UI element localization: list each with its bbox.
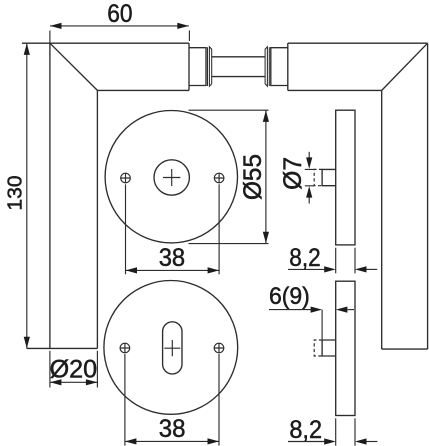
left handle miter joint (50, 43, 98, 90)
dimension 8,2 lower right arrow (366, 441, 377, 443)
dimension 8,2 upper leader (288, 268, 324, 270)
dimension 6(9) leader (269, 309, 311, 311)
dimension 130 bottom arrow (24, 337, 30, 349)
upper side view hub solid (322, 169, 336, 185)
dimension D20 right arrow (86, 379, 98, 385)
right collar ring (265, 47, 267, 86)
dimension 8,2 lower left extension (335, 418, 337, 445)
svg-text:38: 38 (159, 244, 185, 272)
dimension 60 right extension (188, 31, 190, 42)
dimension 38 lower line (125, 440, 219, 442)
dimension 38 upper line (126, 269, 220, 271)
dimension 130 line (26, 43, 28, 348)
right handle grip right edge (427, 43, 429, 349)
dimension 38 lower right arrow (208, 438, 220, 444)
upper rosette right screw (214, 173, 224, 183)
dimension 60 right arrow (177, 23, 189, 29)
dimension D7 bottom arrow (308, 197, 310, 203)
left handle body right edge (188, 43, 190, 90)
right handle body left edge (287, 43, 289, 90)
dimension D7 extension ticks (305, 169, 315, 185)
dimension 38 upper left arrow (126, 267, 138, 273)
dimension 38 upper right arrow (208, 267, 220, 273)
dimension 8,2 upper right arrow (366, 268, 377, 270)
dimension D20 right extension (96, 351, 98, 388)
upper side view rosette profile (336, 110, 355, 245)
left collar ring (209, 47, 211, 86)
upper rosette hub circle (154, 160, 189, 195)
dimension 38 upper right extension (218, 184, 220, 274)
left handle grip left edge (49, 43, 51, 348)
svg-text:Ø55: Ø55 (239, 154, 267, 200)
dimension D7 top arrow (308, 152, 310, 158)
dimension D55 bottom arrow (263, 232, 269, 244)
dimension 6(9) right arrow (348, 309, 354, 311)
lower side view hub dashed (314, 340, 322, 356)
upper side view hub dashed (314, 169, 322, 185)
svg-text:6(9): 6(9) (269, 283, 310, 310)
right neck (271, 48, 288, 86)
upper rosette circle (105, 111, 237, 243)
dimension 6(9) extension (321, 310, 323, 340)
dimension 60 left arrow (50, 23, 62, 29)
dimension D55 bottom extension (189, 243, 269, 245)
svg-text:60: 60 (107, 0, 132, 28)
dimension 8,2 upper right extension (354, 248, 356, 274)
svg-text:130: 130 (5, 175, 27, 210)
dimension 8,2 lower leader (288, 441, 324, 443)
dimension D55 top arrow (263, 110, 269, 122)
dimension 130 top arrow (24, 43, 30, 55)
lower rosette circle (104, 281, 238, 415)
dimension 38 lower right extension (218, 354, 220, 446)
svg-text:Ø20: Ø20 (50, 355, 98, 383)
right collar line (268, 47, 270, 86)
dimension D55 top extension (189, 109, 269, 111)
dimension D20 line (50, 381, 98, 383)
left collar line (207, 47, 209, 86)
left handle grip bottom edge (27, 347, 98, 349)
right handle miter joint (382, 43, 428, 90)
lower rosette right screw (214, 343, 224, 353)
left handle grip right edge (96, 90, 98, 348)
lower rosette keyhole slot (163, 322, 182, 374)
dimension D20 left arrow (50, 379, 62, 385)
dimension 38 upper left extension (125, 184, 127, 274)
dimension 8,2 lower right extension (354, 418, 356, 445)
lower rosette slot cross (164, 340, 180, 356)
lower side view hub solid (322, 340, 336, 356)
upper rosette left screw (121, 173, 131, 183)
right handle grip bottom edge (382, 348, 428, 350)
dimension 60 line (50, 25, 189, 27)
svg-text:8,2: 8,2 (289, 416, 322, 444)
left handle top edge (22, 42, 189, 44)
lower side view rosette profile (336, 281, 355, 415)
dimension D20 left extension (49, 351, 51, 388)
lower rosette left screw (120, 343, 130, 353)
svg-text:8,2: 8,2 (289, 244, 320, 272)
dimension 8,2 upper left extension (335, 248, 337, 274)
upper rosette hub cross (163, 169, 180, 186)
right handle grip left edge (381, 90, 383, 349)
dimension D55 line (265, 110, 267, 243)
dimension 38 lower left extension (124, 354, 126, 446)
spindle (212, 57, 266, 77)
right handle lever bottom edge (288, 89, 382, 91)
left neck (189, 48, 206, 86)
right handle top edge (288, 42, 428, 44)
dimension 60 left extension (49, 31, 51, 44)
dimension 38 lower left arrow (125, 438, 136, 444)
svg-text:38: 38 (159, 415, 186, 443)
svg-text:Ø7: Ø7 (279, 157, 307, 190)
left handle lever bottom edge (97, 89, 189, 91)
